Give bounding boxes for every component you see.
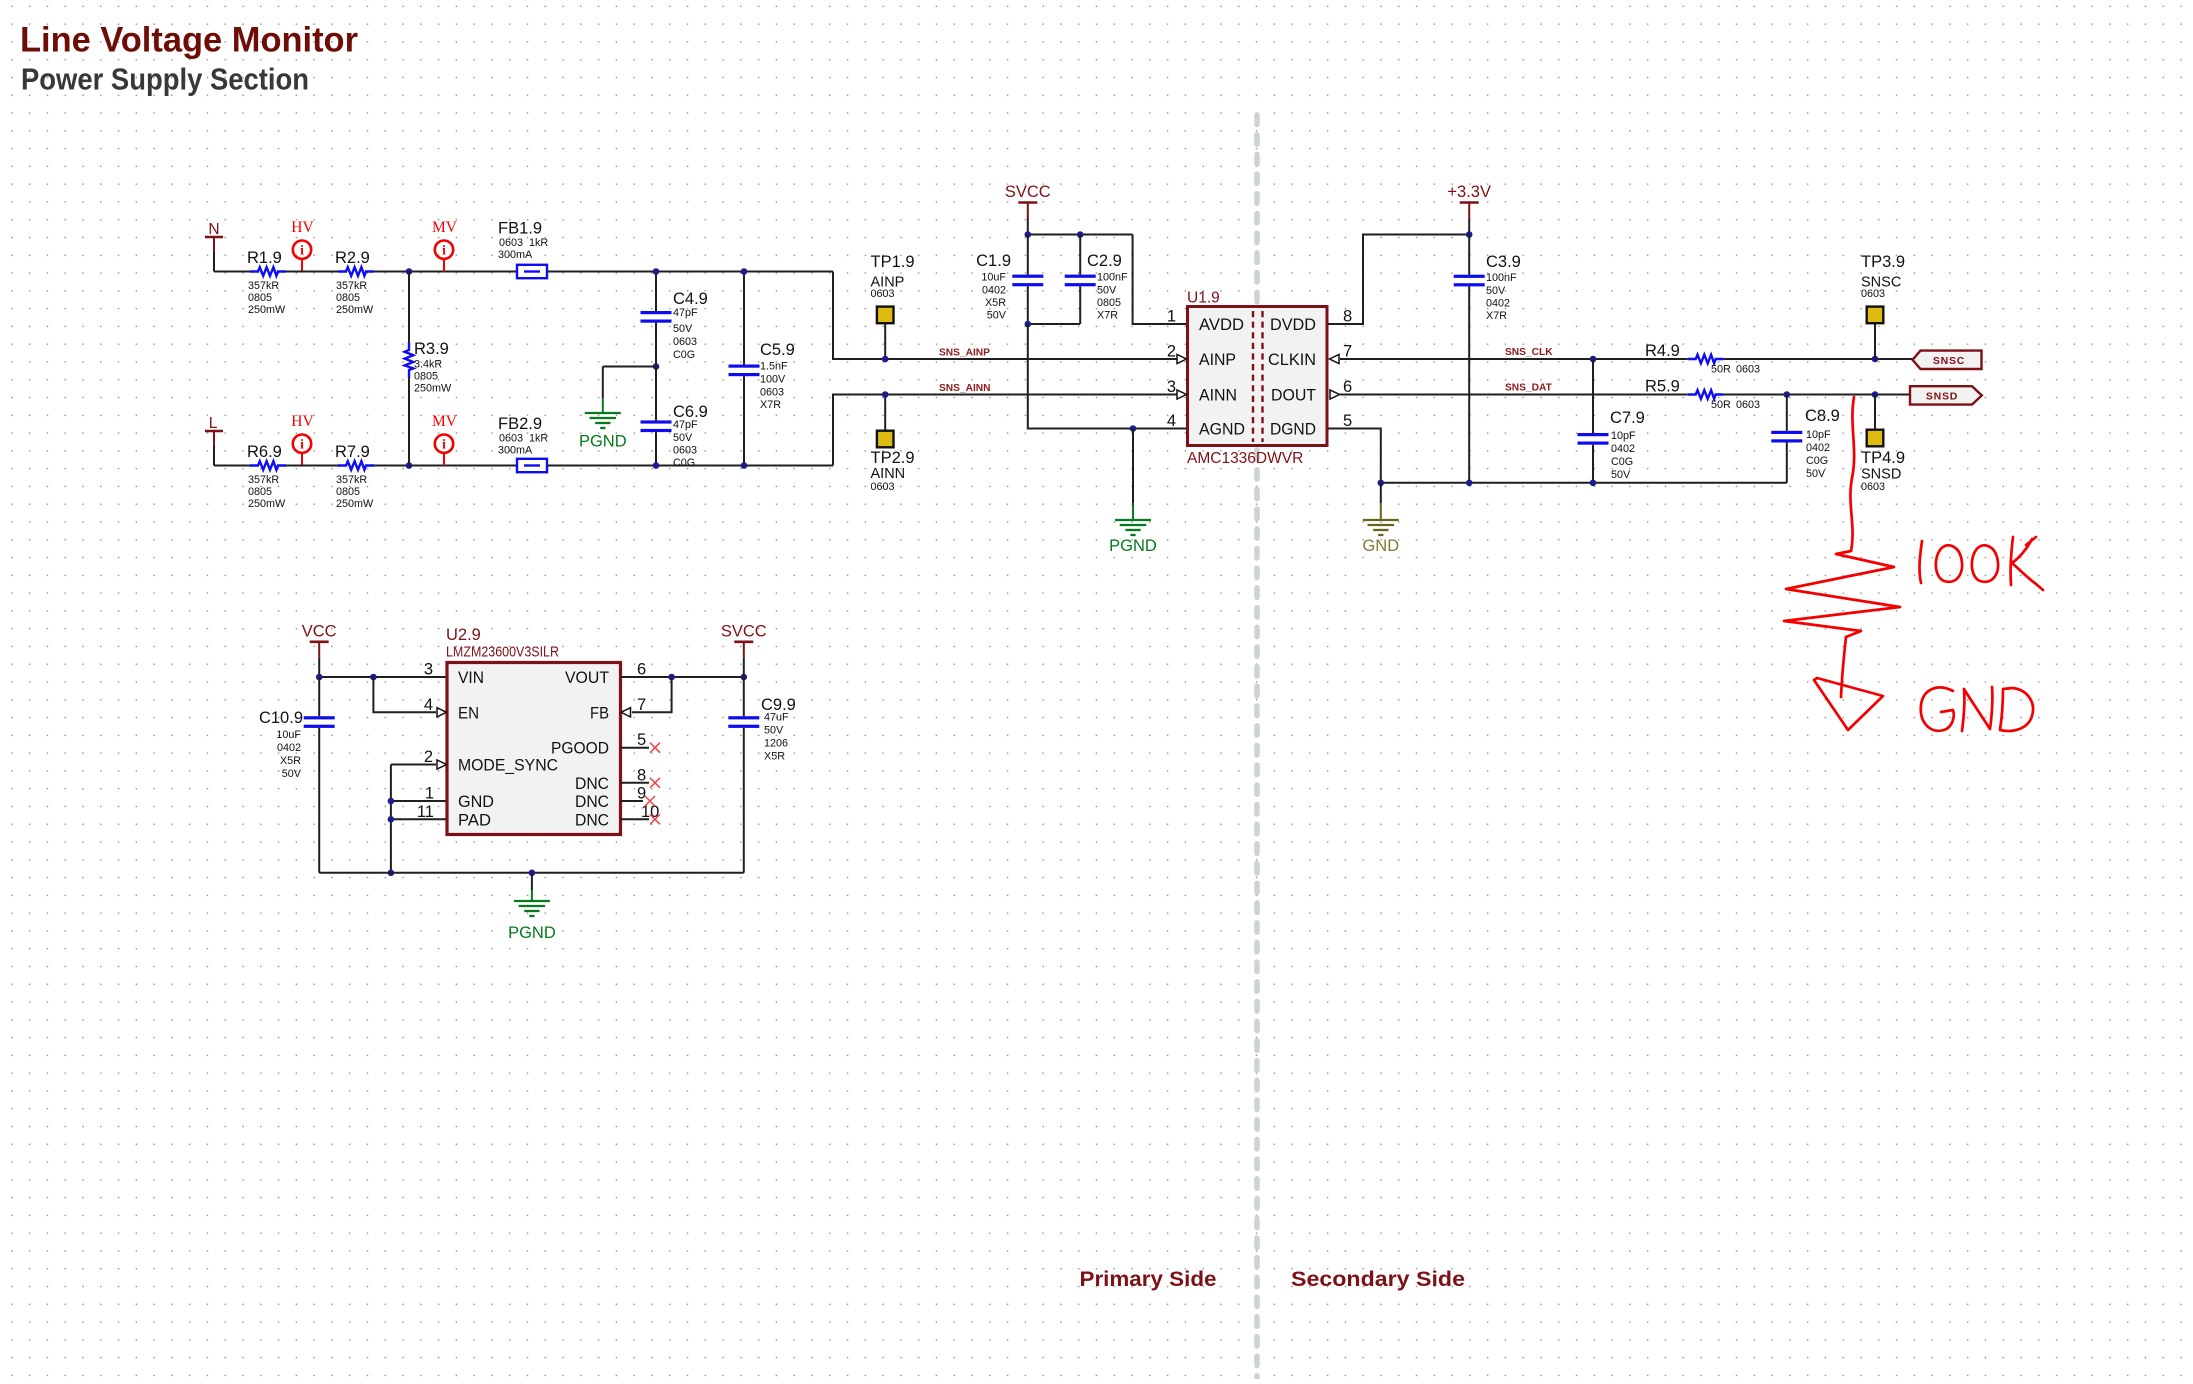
svg-text:+3.3V: +3.3V [1447,183,1491,201]
probe HV [291,219,314,271]
svg-text:0603: 0603 [1861,481,1885,493]
svg-text:AMC1336DWVR: AMC1336DWVR [1187,450,1303,467]
svg-text:i: i [300,436,304,451]
svg-text:0402: 0402 [1806,442,1830,454]
capacitor C4.9 [641,272,708,367]
svg-text:100V: 100V [760,374,786,386]
ground PGND (U2.9) [508,873,556,942]
svg-text:Primary Side: Primary Side [1080,1267,1217,1291]
svg-text:TP3.9: TP3.9 [1861,253,1905,271]
test point TP2.9 [871,395,915,494]
ground GND [1362,483,1399,555]
svg-text:50V: 50V [1611,469,1631,481]
svg-text:GND: GND [458,792,494,811]
svg-text:0402: 0402 [1611,443,1635,455]
port SNSD [1910,386,1982,404]
svg-text:0805: 0805 [336,292,360,304]
power symbol VCC [302,622,337,677]
wire GND pin [391,800,446,802]
resistor R4.9 [1645,342,1760,376]
op-amp U1.9 AMC1336DWVR isolated modulator [1187,290,1327,468]
svg-text:MODE_SYNC: MODE_SYNC [458,756,558,775]
svg-text:SNS_AINN: SNS_AINN [939,383,991,394]
svg-text:1: 1 [425,785,434,803]
svg-text:TP1.9: TP1.9 [871,253,915,271]
svg-text:AINN: AINN [871,466,906,482]
node junction TP3.9 [1872,356,1879,363]
svg-text:i: i [442,242,446,257]
node junction bottom R3.9 [406,462,413,469]
probe HV [291,413,314,465]
test point TP3.9 [1861,253,1905,359]
svg-text:0603: 0603 [1861,288,1885,300]
svg-text:1.5nF: 1.5nF [760,361,788,373]
svg-text:SVCC: SVCC [721,622,767,640]
wire L to rail [213,446,215,466]
probe MV [432,413,458,465]
wire U2.9 ground rail [319,872,744,874]
resistor R6.9 [247,443,286,510]
svg-text:C0G: C0G [1806,455,1828,467]
svg-text:C0G: C0G [673,349,695,361]
svg-text:1kR: 1kR [529,237,548,249]
svg-text:4: 4 [1167,412,1176,430]
wire R1.9 to R2.9 [286,271,338,273]
svg-text:2: 2 [424,748,433,766]
svg-text:C4.9: C4.9 [673,290,708,308]
svg-text:C1.9: C1.9 [976,252,1011,270]
node junction TP4.9 [1872,391,1879,398]
svg-text:250mW: 250mW [414,383,452,395]
svg-text:50V: 50V [673,432,693,444]
svg-text:MV: MV [432,219,458,236]
svg-text:GND: GND [1362,537,1399,555]
svg-text:9: 9 [637,785,646,803]
svg-text:0603: 0603 [499,433,523,445]
svg-text:SNS_AINP: SNS_AINP [939,347,990,358]
svg-text:L: L [209,415,218,432]
svg-text:FB2.9: FB2.9 [498,415,542,433]
node junction C7.9 tap [1590,356,1597,363]
svg-text:0805: 0805 [248,486,272,498]
svg-text:10uF: 10uF [276,729,301,741]
svg-text:DNC: DNC [575,792,609,811]
svg-text:3: 3 [1167,378,1176,396]
svg-text:U1.9: U1.9 [1187,290,1220,307]
wire R5.9 to port SNSD [1724,394,1910,396]
svg-text:1206: 1206 [764,738,788,750]
svg-text:FB: FB [590,703,609,722]
ground PGND (U1.9 AGND) [1109,429,1157,556]
svg-text:R2.9: R2.9 [335,249,370,267]
wire SVCC rail [1028,234,1133,236]
svg-text:47uF: 47uF [764,712,789,724]
svg-text:DGND: DGND [1270,420,1316,439]
wire FB2.9 to corner [547,465,833,467]
svg-text:357kR: 357kR [248,280,279,292]
svg-text:10pF: 10pF [1806,429,1831,441]
power symbol SVCC [721,622,767,677]
svg-text:0805: 0805 [248,292,272,304]
svg-text:357kR: 357kR [336,474,367,486]
wire N rail [214,271,250,273]
svg-text:0603: 0603 [1736,364,1760,376]
svg-text:SNSC: SNSC [1933,355,1965,367]
wire DVDD to +3.3V [1328,235,1469,325]
svg-text:DVDD: DVDD [1270,315,1316,334]
svg-text:R5.9: R5.9 [1645,378,1680,396]
svg-text:0805: 0805 [414,371,438,383]
svg-text:50R: 50R [1711,399,1731,411]
svg-text:50V: 50V [764,725,784,737]
wire VOUT to SVCC [621,676,744,678]
svg-text:5: 5 [637,731,646,749]
svg-text:50V: 50V [987,310,1007,322]
node junction C8.9 tap [1784,391,1791,398]
svg-text:C5.9: C5.9 [760,341,795,359]
svg-text:C2.9: C2.9 [1087,252,1122,270]
node junction top R3.9 [406,268,413,275]
svg-text:11: 11 [417,803,434,821]
test point TP1.9 [871,253,915,359]
wire bottom rail corner to SNS_AINN [833,395,1177,466]
svg-text:X5R: X5R [985,297,1006,309]
svg-text:AGND: AGND [1199,420,1245,439]
resistor R1.9 [247,249,286,316]
svg-text:TP4.9: TP4.9 [1861,449,1905,467]
ferrite bead FB2.9 [498,415,548,472]
capacitor C5.9 [729,272,795,466]
svg-text:DNC: DNC [575,810,609,829]
node junction C4.9/C6.9/PGND [653,363,660,370]
svg-text:VCC: VCC [302,622,337,640]
svg-text:C7.9: C7.9 [1610,409,1645,427]
svg-text:8: 8 [637,766,646,784]
svg-text:Line Voltage Monitor: Line Voltage Monitor [20,21,358,60]
svg-text:Secondary Side: Secondary Side [1291,1267,1465,1291]
svg-text:0603: 0603 [871,481,895,493]
svg-text:8: 8 [1343,308,1352,326]
wire down to AVDD pin1 [1133,235,1186,325]
capacitor C7.9 [1578,359,1645,483]
wire PGND tap [603,366,656,368]
svg-text:X7R: X7R [1097,310,1118,322]
wire MODE_SYNC branch [391,764,436,766]
resistor R2.9 [335,249,374,316]
svg-text:50V: 50V [282,768,302,780]
svg-text:VIN: VIN [458,668,484,687]
svg-text:SNSD: SNSD [1926,391,1958,403]
svg-text:X7R: X7R [760,399,781,411]
svg-text:HV: HV [291,413,314,430]
svg-text:0402: 0402 [982,285,1006,297]
svg-text:50R: 50R [1711,364,1731,376]
svg-text:0603: 0603 [760,387,784,399]
svg-text:PGND: PGND [1109,537,1157,555]
wire CLKIN line [1340,358,1688,360]
pin9 DNC stub with no-connect [621,800,644,802]
port SNSC [1913,351,1982,369]
ground PGND (filter) [579,367,627,451]
capacitor C6.9 [641,367,708,470]
pin8 DNC stub with no-connect [621,782,650,784]
node junction PGND tap on AGND [1130,425,1137,432]
svg-text:C0G: C0G [1611,456,1633,468]
svg-text:HV: HV [291,219,314,236]
svg-text:R4.9: R4.9 [1645,342,1680,360]
power symbol SVCC [1005,183,1051,235]
svg-text:1kR: 1kR [529,433,548,445]
capacitor C1.9 [976,235,1043,325]
svg-text:100nF: 100nF [1486,272,1517,284]
svg-text:50V: 50V [1806,468,1826,480]
primary/secondary separator dashed line [1254,115,1260,1382]
svg-text:R7.9: R7.9 [335,443,370,461]
svg-text:10pF: 10pF [1611,430,1636,442]
svg-text:SNS_DAT: SNS_DAT [1505,383,1553,394]
svg-text:AINN: AINN [1199,386,1237,405]
svg-text:N: N [208,221,219,238]
svg-text:6: 6 [637,661,646,679]
net label N [205,221,223,252]
power symbol +3.3V [1447,183,1491,235]
svg-text:C10.9: C10.9 [259,709,303,727]
wire DGND to ground rail [1328,429,1787,483]
svg-text:SNS_CLK: SNS_CLK [1505,347,1553,358]
svg-text:TP2.9: TP2.9 [871,449,915,467]
svg-text:PGOOD: PGOOD [551,739,609,758]
wire FB branch [632,677,672,712]
capacitor C9.9 [728,677,796,873]
wire R4.9 to port SNSC [1724,358,1913,360]
svg-text:CLKIN: CLKIN [1268,350,1316,369]
wire L rail [214,465,250,467]
svg-text:6: 6 [1343,378,1352,396]
svg-text:Power Supply Section: Power Supply Section [21,61,309,96]
svg-text:300mA: 300mA [498,249,533,261]
resistor R3.9 [405,272,452,466]
svg-text:250mW: 250mW [248,304,286,316]
svg-text:SVCC: SVCC [1005,183,1051,201]
probe MV [432,219,458,271]
wire MODE vertical [390,765,392,873]
svg-text:X5R: X5R [764,751,785,763]
svg-text:R3.9: R3.9 [414,340,449,358]
svg-text:PGND: PGND [579,433,627,451]
wire VCC rail to VIN [319,676,445,678]
test point TP4.9 [1861,395,1905,494]
svg-text:0402: 0402 [277,742,301,754]
svg-text:0603: 0603 [871,288,895,300]
svg-text:C0G: C0G [673,457,695,469]
svg-text:0603: 0603 [499,237,523,249]
wire top rail corner to SNS_AINP [833,272,1177,360]
svg-text:DNC: DNC [575,774,609,793]
wire EN branch [373,677,436,712]
svg-text:4: 4 [424,696,433,714]
svg-text:0603: 0603 [673,445,697,457]
svg-text:47pF: 47pF [673,419,698,431]
svg-text:250mW: 250mW [336,498,374,510]
wire DOUT line [1340,394,1688,396]
svg-text:C3.9: C3.9 [1486,253,1521,271]
svg-text:EN: EN [458,703,479,722]
svg-text:300mA: 300mA [498,445,533,457]
svg-text:0603: 0603 [673,336,697,348]
ferrite bead FB1.9 [498,220,548,279]
svg-text:0402: 0402 [1486,298,1510,310]
svg-text:250mW: 250mW [248,498,286,510]
capacitor C8.9 [1771,395,1840,483]
wire N to rail [213,252,215,272]
svg-text:250mW: 250mW [336,304,374,316]
svg-text:C8.9: C8.9 [1805,407,1840,425]
svg-text:AVDD: AVDD [1199,315,1244,334]
svg-text:X5R: X5R [280,755,301,767]
wire C1.9 down to AGND row [1028,324,1186,429]
svg-text:R6.9: R6.9 [247,443,282,461]
svg-text:100nF: 100nF [1097,272,1128,284]
net label L [205,415,223,446]
svg-text:3.4kR: 3.4kR [414,359,442,371]
svg-text:7: 7 [637,696,646,714]
svg-text:PGND: PGND [508,924,556,942]
wire R6.9 to R7.9 [286,465,338,467]
svg-text:FB1.9: FB1.9 [498,220,542,238]
svg-text:LMZM23600V3SILR: LMZM23600V3SILR [446,644,559,661]
svg-text:47pF: 47pF [673,307,698,319]
resistor R5.9 [1645,378,1760,412]
svg-text:R1.9: R1.9 [247,249,282,267]
svg-text:2: 2 [1167,343,1176,361]
capacitor C3.9 [1454,235,1521,483]
svg-text:MV: MV [432,413,458,430]
svg-text:X7R: X7R [1486,310,1507,322]
svg-text:AINP: AINP [1199,350,1236,369]
wire R7.9 to FB2.9 [374,465,517,467]
svg-text:3: 3 [424,661,433,679]
svg-text:0603: 0603 [1736,399,1760,411]
svg-text:i: i [300,242,304,257]
svg-text:10uF: 10uF [981,272,1006,284]
svg-text:0805: 0805 [1097,297,1121,309]
node junction C1.9 bottom [1025,321,1032,328]
pin5 PGOOD stub with no-connect [621,747,650,749]
pin10 DNC stub with no-connect [621,818,650,820]
svg-text:PAD: PAD [458,810,491,829]
hand-drawn annotation: resistor 100K to GND [1784,397,2043,731]
svg-text:50V: 50V [1486,285,1506,297]
wire PAD pin [391,818,446,820]
svg-text:DOUT: DOUT [1271,386,1316,405]
svg-text:0805: 0805 [336,486,360,498]
svg-text:U2.9: U2.9 [446,626,481,644]
capacitor C2.9 [1028,235,1128,325]
svg-text:7: 7 [1343,343,1352,361]
svg-text:VOUT: VOUT [565,668,609,687]
svg-text:357kR: 357kR [248,474,279,486]
svg-text:5: 5 [1343,412,1352,430]
wire R2.9 to FB1.9 [374,271,517,273]
svg-text:1: 1 [1167,308,1176,326]
svg-text:i: i [442,436,446,451]
regulator U2.9 LMZM23600V3SILR [446,626,621,835]
svg-text:50V: 50V [1097,285,1117,297]
svg-text:50V: 50V [673,323,693,335]
svg-text:357kR: 357kR [336,280,367,292]
resistor R7.9 [335,443,374,510]
capacitor C10.9 [259,677,335,873]
wire FB1.9 to corner [547,271,833,273]
